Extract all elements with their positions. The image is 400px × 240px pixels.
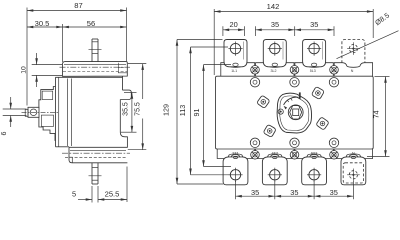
dashed screw bottom N terminal bbox=[349, 171, 357, 179]
svg-text:35.5: 35.5 bbox=[123, 102, 130, 116]
cover screw lower left bbox=[263, 124, 276, 137]
side view: bottom cap hidden dashed line bbox=[65, 156, 127, 158]
svg-text:20: 20 bbox=[229, 20, 237, 29]
front view: top terminal block 5L3 bbox=[303, 40, 326, 67]
cover screw upper left bbox=[257, 95, 270, 108]
svg-text:113: 113 bbox=[178, 105, 187, 116]
side view: top terminal cover cap bbox=[63, 62, 128, 77]
side view: mechanism block upper inner rectangle bbox=[42, 91, 53, 99]
dimension 75.5 overall side height bbox=[128, 63, 147, 65]
extension ticks for top dimensions bbox=[222, 26, 224, 36]
cover screw lower right bbox=[316, 117, 329, 130]
svg-text:35: 35 bbox=[310, 20, 318, 29]
terminal screw 4T2 bbox=[270, 170, 280, 180]
front view: top cable clamp circles bbox=[250, 78, 259, 87]
svg-text:2T1: 2T1 bbox=[232, 151, 239, 155]
svg-text:35: 35 bbox=[290, 188, 298, 197]
side view: shaft circle bbox=[30, 109, 37, 116]
svg-text:30.5: 30.5 bbox=[35, 19, 50, 28]
svg-text:6: 6 bbox=[0, 132, 8, 136]
terminal screw 6T3 bbox=[309, 170, 319, 180]
svg-text:87: 87 bbox=[74, 1, 82, 10]
terminal screw 1L1 bbox=[230, 43, 240, 53]
side view: bottom cap centerline dash-dot bbox=[62, 152, 130, 154]
front view: bottom fixing screws with cross slots bbox=[251, 151, 260, 160]
svg-text:4T2: 4T2 bbox=[272, 151, 279, 155]
ON position index bar bbox=[299, 92, 301, 98]
front view: bottom terminal block 6T3 bbox=[302, 157, 327, 185]
dimension 87 overall depth bbox=[27, 10, 127, 12]
side view: shaft face plate bbox=[25, 109, 28, 116]
dimension 129 overall height bbox=[176, 40, 178, 185]
svg-text:6T3: 6T3 bbox=[311, 151, 318, 155]
side view: shaft centerline dash-dot bbox=[22, 111, 60, 113]
side view: top fixing stud M5 bbox=[91, 39, 93, 62]
side view: bottom fixing stud M5 bbox=[91, 163, 93, 184]
svg-text:142: 142 bbox=[267, 2, 280, 11]
front view: bottom terminal block 4T2 bbox=[262, 157, 287, 185]
side view: operating shaft square end bbox=[28, 107, 39, 117]
front view: bottom N terminal block solid outline bbox=[341, 157, 366, 185]
front view: central rotary mechanism outer contour bbox=[277, 93, 311, 133]
side view: body right edge with DIN step bbox=[120, 76, 127, 148]
side view: bottom cap left step bbox=[69, 157, 72, 163]
dimension 5 stud offset bbox=[91, 186, 93, 203]
side view: front mechanism block lower profile steps bbox=[39, 117, 56, 140]
terminal screw 2T1 bbox=[230, 170, 240, 180]
svg-text:3L2: 3L2 bbox=[271, 69, 277, 73]
side view: body interior vertical face lines bbox=[67, 79, 69, 147]
side view: cap inner rim line bbox=[64, 64, 126, 66]
dimension 142 overall width bbox=[214, 11, 373, 13]
central mechanism inner contour bbox=[280, 96, 309, 131]
side view: DIN rail hook tab bbox=[120, 90, 131, 99]
dimension 91 bbox=[203, 65, 205, 167]
side view: front mechanism block upper profile bbox=[39, 87, 56, 108]
svg-text:N: N bbox=[352, 151, 355, 155]
svg-text:35: 35 bbox=[330, 188, 338, 197]
front view: body outline bbox=[216, 76, 374, 149]
shaft boss ring bbox=[288, 105, 303, 120]
svg-text:75.5: 75.5 bbox=[135, 102, 142, 116]
rotation direction arc arrow bbox=[284, 97, 299, 105]
front view: top terminal block 1L1 bbox=[224, 40, 247, 67]
front view: top fixing screws with cross slots bbox=[251, 66, 260, 75]
side view: main body outline bbox=[56, 76, 123, 78]
dimension 6 shaft stickout bbox=[3, 108, 27, 110]
svg-text:35: 35 bbox=[271, 20, 279, 29]
front view: top terminal saddles row bbox=[221, 63, 255, 76]
terminal screw 3L2 bbox=[270, 43, 280, 53]
dimension 35 pole spacing top 1 bbox=[255, 29, 294, 31]
side view: cap centerline dash-dot bbox=[60, 66, 131, 68]
front view: bottom terminal saddles row bbox=[217, 149, 255, 159]
dimension 20 terminal width bbox=[223, 29, 245, 31]
leader line diameter 8.5 mounting holes bbox=[337, 31, 399, 59]
front view: top terminal block 3L2 bbox=[263, 40, 286, 67]
dashed square inside bottom N terminal bbox=[343, 163, 363, 183]
dimension 10 cover height left bbox=[32, 64, 62, 66]
svg-text:5L3: 5L3 bbox=[310, 69, 316, 73]
shaft square hole bbox=[293, 109, 299, 116]
cover screw upper right bbox=[311, 86, 324, 99]
dimension 30.5 bbox=[27, 26, 63, 28]
svg-text:25.5: 25.5 bbox=[105, 189, 120, 198]
svg-text:1L1: 1L1 bbox=[231, 69, 237, 73]
svg-text:N: N bbox=[351, 69, 354, 73]
side view: mechanism block lower inner rectangle bbox=[41, 115, 53, 126]
svg-text:129: 129 bbox=[161, 104, 170, 116]
svg-text:91: 91 bbox=[192, 109, 201, 117]
side view: cap hidden dashed line bbox=[63, 71, 127, 73]
dimension 74 right side bbox=[385, 77, 387, 157]
dimension 35 bottom spacing 2 bbox=[275, 195, 314, 197]
dimension 35 bottom spacing 1 bbox=[236, 195, 275, 197]
front view: dashed optional N terminal top bbox=[342, 40, 365, 64]
dimension 113 screw centers height bbox=[190, 47, 192, 175]
side view: bottom terminal cover cap bbox=[69, 147, 127, 163]
dimension 25.5 stud to cover edge bbox=[126, 167, 128, 203]
dimension 35.5 DIN step height bbox=[124, 92, 137, 94]
extension lines for 87 / 30.5 / 56 bbox=[26, 8, 28, 106]
svg-text:35: 35 bbox=[251, 188, 259, 197]
svg-text:56: 56 bbox=[87, 19, 95, 28]
dashed N terminal screw bbox=[349, 45, 357, 53]
shaft hexagon bbox=[290, 106, 302, 119]
svg-text:74: 74 bbox=[372, 111, 381, 119]
padlock hole circle bbox=[278, 109, 283, 114]
svg-text:5: 5 bbox=[72, 189, 76, 198]
front view: bottom cable clamp circles bbox=[250, 138, 259, 147]
svg-text:10: 10 bbox=[20, 66, 27, 74]
terminal screw 5L3 bbox=[309, 43, 319, 53]
side view: cap right end clip notch bbox=[118, 63, 127, 73]
dimension 56 bbox=[63, 26, 127, 28]
dimension 35 bottom spacing 3 bbox=[314, 195, 353, 197]
leader extension lines from bottom screws bbox=[235, 181, 237, 199]
front view: bottom terminal block 2T1 bbox=[223, 157, 248, 185]
dimension 35 pole spacing top 2 bbox=[295, 29, 334, 31]
